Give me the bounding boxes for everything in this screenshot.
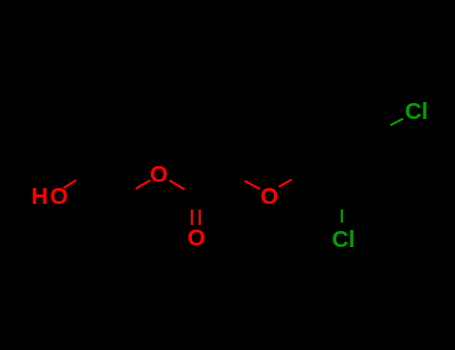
ring bond C1'-C2' (black) <box>303 175 341 197</box>
ring bond C5'-C6' (black) <box>303 110 341 132</box>
double bond C3=O oxygen halves (red) <box>191 210 193 226</box>
ring bond C2'-Cl(bottom) chlorine half (green) <box>341 210 343 223</box>
bond O(ester)-C3 carbon half (black) <box>185 189 197 197</box>
ring bond C6'-C1' (black) <box>302 131 304 174</box>
ring bond C4'-C5' (black) <box>341 110 378 132</box>
bond C1-C2 (black, carbon) <box>91 173 124 198</box>
bond O(hydroxyl)-C1 oxygen half (red) <box>64 180 77 188</box>
bond C3-C4 (black, carbon) <box>196 174 233 198</box>
bond O(ether)-ring C1' carbon half (black) <box>292 175 304 180</box>
bond C4-O(ether) carbon half (black) <box>233 174 245 182</box>
ring bond C4'-Cl(top) chlorine half (green) <box>391 119 404 126</box>
ring bond C2'-Cl(bottom) carbon half (black) <box>341 196 342 209</box>
bond O(ester)-C3 oxygen half (red) <box>170 180 185 189</box>
bond O(ether)-ring C1' oxygen half (red) <box>279 180 292 187</box>
ring bond C4'-Cl(top) carbon half (black) <box>378 125 390 131</box>
bond C4-O(ether) oxygen half (red) <box>245 181 260 189</box>
ring bond C2'-C3' (black) <box>341 175 378 197</box>
svg-text:O: O <box>261 183 279 209</box>
double bond C3=O carbon halves (black) <box>191 197 193 210</box>
bond O(hydroxyl)-C1 carbon half (black) <box>76 173 91 181</box>
ring bond C3'-C4' (black) <box>377 131 379 174</box>
svg-text:HO: HO <box>32 183 69 209</box>
svg-text:Cl: Cl <box>332 226 355 252</box>
svg-text:O: O <box>150 161 168 187</box>
bond C2-O(ester) carbon half (black) <box>124 189 136 197</box>
svg-text:O: O <box>188 224 206 250</box>
svg-text:Cl: Cl <box>405 98 428 124</box>
bond C2-O(ester) oxygen half (red) <box>136 180 151 189</box>
